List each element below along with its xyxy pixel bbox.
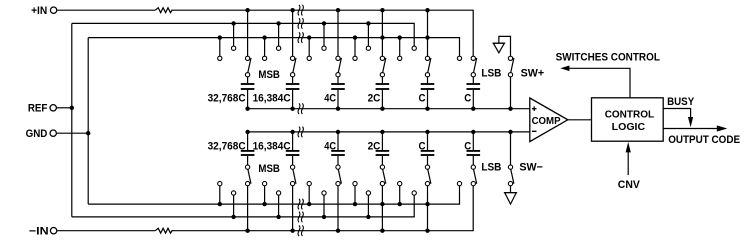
switch contact IN col 2 (bottom) xyxy=(290,181,294,230)
svg-text:SWITCHES CONTROL: SWITCHES CONTROL xyxy=(556,52,661,64)
junction GND rail col 1 (bottom) xyxy=(218,202,222,206)
svg-text:COMP: COMP xyxy=(532,116,561,127)
wire OUTPUT CODE xyxy=(663,128,717,130)
wire comparator output xyxy=(568,119,592,121)
switch contact GND col 3 (top) xyxy=(307,38,311,61)
switch contact REF col 5 (top) xyxy=(412,46,416,50)
switch contact GND col 2 (bottom) xyxy=(262,181,266,204)
svg-text:CNV: CNV xyxy=(618,179,641,191)
break mark on GND rail top xyxy=(298,32,303,43)
capacitor C (bottom bank) xyxy=(467,132,481,155)
wire IN rail (top) xyxy=(171,10,473,56)
junction top bus col 2 xyxy=(290,107,294,111)
junction IN rail col 5 (bottom) xyxy=(425,229,429,233)
switch S1 (bottom bank, 32,768C) xyxy=(245,156,251,184)
junction bottom bus col 4 xyxy=(380,130,384,134)
label CNV xyxy=(618,179,641,191)
junction bottom bus col 5 xyxy=(425,130,429,134)
wire BUSY xyxy=(663,109,690,118)
wire GND vertical feeder xyxy=(87,38,89,205)
terminal GND xyxy=(26,128,57,140)
capacitor 4C (top bank) xyxy=(331,84,345,109)
svg-text:C: C xyxy=(464,141,471,153)
junction GND rail x col4 (top) xyxy=(380,35,384,39)
switch contact IN col 6 (top) xyxy=(471,56,475,60)
terminal +IN xyxy=(31,5,57,17)
terminal REF xyxy=(28,103,57,115)
switch S6 (top bank, C) xyxy=(471,58,477,83)
op-amp U1 COMP xyxy=(530,98,568,142)
capacitor 2C (bottom bank) xyxy=(376,132,390,155)
svg-text:LOGIC: LOGIC xyxy=(612,122,646,133)
switch S5 (top bank, C) xyxy=(425,58,431,83)
wire switches control xyxy=(569,68,630,98)
switch contact GND col 1 (bottom) xyxy=(218,181,222,204)
junction IN rail col 1 (bottom) xyxy=(245,229,249,233)
switch contact REF col 4 (bottom) xyxy=(366,191,370,217)
switch contact IN col 5 (top) xyxy=(425,10,429,60)
wire REF rail (bottom) xyxy=(72,195,414,217)
svg-text:4C: 4C xyxy=(324,92,336,104)
svg-text:16,384C: 16,384C xyxy=(253,92,291,104)
switch S3 (top bank, 4C) xyxy=(336,58,342,83)
junction IN rail col 3 (bottom) xyxy=(336,229,340,233)
value label 2C (bottom) xyxy=(368,141,381,153)
capacitor C (top bank) xyxy=(467,84,481,109)
junction GND rail x col5 (bottom) xyxy=(425,202,429,206)
svg-text:MSB: MSB xyxy=(258,69,280,81)
switch contact REF col 4 (top) xyxy=(366,23,370,50)
break mark on IN rail bottom xyxy=(298,225,303,236)
svg-text:SW+: SW+ xyxy=(521,67,545,79)
wire CNV xyxy=(627,152,629,175)
value label 2C (top) xyxy=(368,92,381,104)
svg-text:LSB: LSB xyxy=(481,161,501,173)
switch contact GND col 4 (bottom) xyxy=(353,181,357,204)
switch contact col 6 left (bottom) xyxy=(457,181,461,185)
svg-text:4C: 4C xyxy=(324,141,336,153)
switch contact IN col 1 (top) xyxy=(245,10,249,60)
switch contact IN col 3 (top) xyxy=(336,10,340,60)
value label 32,768C (bottom) xyxy=(208,141,246,153)
svg-text:2C: 2C xyxy=(368,92,381,104)
capacitor 32,768C (bottom bank) xyxy=(241,132,255,155)
switch S4 (top bank, 2C) xyxy=(380,58,386,83)
label MSB (bottom) xyxy=(258,163,280,175)
value label 4C (top) xyxy=(324,92,336,104)
value label C (bottom) xyxy=(419,141,426,153)
break mark on top bus xyxy=(298,103,303,114)
switch SW- xyxy=(508,132,543,186)
value label C (bottom) xyxy=(464,141,471,153)
switch contact REF col 3 (top) xyxy=(322,23,326,50)
switch contact IN col 4 (bottom) xyxy=(380,181,384,230)
switch S3 (bottom bank, 4C) xyxy=(336,156,342,184)
junction REF rail col 2 (bottom) xyxy=(276,215,280,219)
junction GND rail x col4 (bottom) xyxy=(380,202,384,206)
svg-text:CONTROL: CONTROL xyxy=(605,110,654,121)
junction top bus col 1 xyxy=(245,107,249,111)
junction IN rail col 2 (bottom) xyxy=(290,229,294,233)
svg-text:32,768C: 32,768C xyxy=(208,92,246,104)
switch contact IN col 4 (top) xyxy=(380,10,384,60)
junction bottom bus col 3 xyxy=(336,130,340,134)
svg-text:−IN: −IN xyxy=(29,226,49,238)
label SWITCHES CONTROL xyxy=(556,52,661,64)
value label 4C (bottom) xyxy=(324,141,336,153)
capacitor 4C (bottom bank) xyxy=(331,132,345,155)
switch contact REF col 1 (bottom) xyxy=(231,191,235,217)
junction top bus col 4 xyxy=(380,107,384,111)
switch contact IN col 6 (bottom) xyxy=(471,181,475,185)
wire REF to REF feeder xyxy=(57,107,72,109)
switch contact REF col 3 (bottom) xyxy=(322,191,326,217)
wire GND rail (top) xyxy=(88,38,459,57)
junction IN rail col 5 (top) xyxy=(425,8,429,12)
junction GND rail col 2 (top) xyxy=(262,35,266,39)
switch contact IN col 5 (bottom) xyxy=(425,181,429,230)
wire bottom bus to comparator - xyxy=(248,131,530,133)
switch contact GND col 2 (top) xyxy=(262,38,266,61)
control logic box U2 xyxy=(592,98,664,141)
label BUSY xyxy=(667,96,695,108)
arrow CNV xyxy=(626,142,631,153)
capacitor 32,768C (top bank) xyxy=(241,84,255,109)
junction GND rail col 2 (bottom) xyxy=(262,202,266,206)
junction top bus col 3 xyxy=(336,107,340,111)
capacitor C (top bank) xyxy=(421,84,435,109)
switch S5 (bottom bank, C) xyxy=(425,156,431,184)
wire REF rail (top) xyxy=(72,23,414,46)
wire REF vertical feeder xyxy=(71,23,73,217)
terminal -IN xyxy=(29,226,57,238)
junction REF rail col 1 (bottom) xyxy=(231,215,235,219)
switch S4 (bottom bank, 2C) xyxy=(380,156,386,184)
switch contact GND col 3 (bottom) xyxy=(307,181,311,204)
ground (bottom, at SW-) xyxy=(504,193,517,205)
junction REF rail col 4 (bottom) xyxy=(366,215,370,219)
junction GND rail col 4 (bottom) xyxy=(353,202,357,206)
svg-text:OUTPUT CODE: OUTPUT CODE xyxy=(668,134,740,146)
capacitor 16,384C (top bank) xyxy=(286,84,300,109)
break mark on IN rail top xyxy=(298,5,303,16)
label MSB (top) xyxy=(258,69,280,81)
junction IN rail col 2 (top) xyxy=(290,8,294,12)
svg-text:MSB: MSB xyxy=(258,163,280,175)
junction bottom bus col 6 xyxy=(471,130,475,134)
junction REF rail col 1 (top) xyxy=(231,21,235,25)
label OUTPUT CODE xyxy=(668,134,740,146)
junction top bus col 6 xyxy=(471,107,475,111)
break mark on bottom bus xyxy=(298,127,303,138)
switch S2 (bottom bank, 16,384C) xyxy=(290,156,296,184)
wire top bus to comparator + xyxy=(248,108,530,110)
junction REF rail col 2 (top) xyxy=(276,21,280,25)
svg-text:C: C xyxy=(419,141,426,153)
switch contact col 6 left (top) xyxy=(457,56,461,60)
svg-text:REF: REF xyxy=(28,103,48,115)
svg-text:SW−: SW− xyxy=(519,161,543,173)
junction REF rail col 3 (top) xyxy=(322,21,326,25)
switch S1 (top bank, 32,768C) xyxy=(245,58,251,83)
junction bottom bus SW- xyxy=(508,130,512,134)
switch contact REF col 5 (bottom) xyxy=(412,191,416,195)
value label 16,384C (top) xyxy=(253,92,291,104)
junction REF rail col 3 (bottom) xyxy=(322,215,326,219)
switch S2 (top bank, 16,384C) xyxy=(290,58,296,83)
wire -IN to resistor xyxy=(57,230,155,232)
arrow OUTPUT CODE xyxy=(717,125,728,131)
arrow BUSY xyxy=(688,117,693,127)
switch contact GND col 5 (top) xyxy=(398,38,402,61)
junction GND rail x col5 (top) xyxy=(425,35,429,39)
junction GND feeder xyxy=(86,131,90,135)
switch S6 (bottom bank, C) xyxy=(471,156,477,184)
svg-text:+IN: +IN xyxy=(31,5,47,17)
junction IN rail col 4 (bottom) xyxy=(380,229,384,233)
value label C (top) xyxy=(419,92,426,104)
svg-text:32,768C: 32,768C xyxy=(208,141,246,153)
switch SW+ xyxy=(508,56,544,109)
resistor (input R, bottom) xyxy=(155,228,172,233)
switch contact IN col 1 (bottom) xyxy=(245,181,249,230)
switch contact GND col 5 (bottom) xyxy=(398,181,402,204)
junction IN rail col 1 (top) xyxy=(245,8,249,12)
arrow switches control xyxy=(560,66,569,72)
junction bottom bus col 2 xyxy=(290,130,294,134)
break mark on GND rail bottom xyxy=(298,199,303,210)
capacitor C (bottom bank) xyxy=(421,132,435,155)
junction top bus SW+ xyxy=(508,107,512,111)
label LSB (bottom) xyxy=(481,161,501,173)
switch contact IN col 3 (bottom) xyxy=(336,181,340,230)
svg-text:GND: GND xyxy=(26,128,48,140)
junction REF feeder xyxy=(70,106,74,110)
switch contact REF col 2 (bottom) xyxy=(276,191,280,217)
svg-text:16,384C: 16,384C xyxy=(253,141,291,153)
junction REF rail col 4 (top) xyxy=(366,21,370,25)
switch contact GND col 1 (top) xyxy=(218,38,222,61)
junction GND rail col 1 (top) xyxy=(218,35,222,39)
junction GND rail col 5 (top) xyxy=(398,35,402,39)
wire IN rail (bottom) xyxy=(171,186,473,231)
label LSB (top) xyxy=(481,67,501,79)
value label 32,768C (top) xyxy=(208,92,246,104)
capacitor 16,384C (bottom bank) xyxy=(286,132,300,155)
ground (top, at SW+) xyxy=(493,43,506,53)
switch contact IN col 2 (top) xyxy=(290,10,294,60)
switch contact REF col 1 (top) xyxy=(231,23,235,50)
wire GND rail (bottom) xyxy=(88,186,459,204)
junction GND rail col 4 (top) xyxy=(353,35,357,39)
value label C (top) xyxy=(464,92,471,104)
junction IN rail col 3 (top) xyxy=(336,8,340,12)
wire SW+ contact to ground xyxy=(499,36,511,56)
switch contact REF col 2 (top) xyxy=(276,23,280,50)
break mark on REF rail bottom xyxy=(298,212,303,223)
svg-text:C: C xyxy=(419,92,426,104)
junction GND rail col 5 (bottom) xyxy=(398,202,402,206)
wire SW- contact to ground xyxy=(510,186,512,193)
break mark on REF rail top xyxy=(298,18,303,29)
junction bottom bus col 1 xyxy=(245,130,249,134)
junction top bus col 5 xyxy=(425,107,429,111)
junction GND rail col 3 (top) xyxy=(307,35,311,39)
switch contact GND col 4 (top) xyxy=(353,38,357,61)
junction IN rail col 4 (top) xyxy=(380,8,384,12)
svg-text:2C: 2C xyxy=(368,141,381,153)
wire GND to GND feeder xyxy=(57,132,88,134)
svg-text:C: C xyxy=(464,92,471,104)
svg-text:LSB: LSB xyxy=(481,67,501,79)
junction GND rail col 3 (bottom) xyxy=(307,202,311,206)
capacitor 2C (top bank) xyxy=(376,84,390,109)
wire +IN to resistor xyxy=(57,9,155,11)
resistor (input R, top) xyxy=(155,8,172,13)
value label 16,384C (bottom) xyxy=(253,141,291,153)
svg-text:BUSY: BUSY xyxy=(667,96,695,108)
